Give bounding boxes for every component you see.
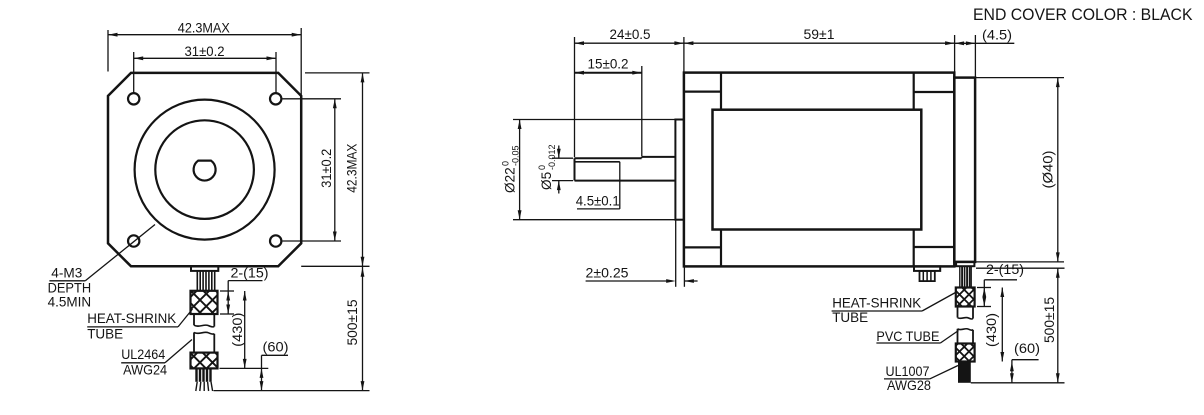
svg-text:AWG28: AWG28: [887, 378, 931, 393]
dimension 500&#177;15 vertical (front view cable): [214, 266, 370, 390]
side cable: pvc tube with break symbol: [958, 307, 974, 344]
svg-text:DEPTH: DEPTH: [48, 281, 92, 296]
side view: shaft with flat: [575, 157, 676, 181]
front cable: lower lead wires: [196, 368, 213, 391]
svg-text:AWG24: AWG24: [123, 362, 167, 377]
svg-text:42.3MAX: 42.3MAX: [178, 21, 230, 36]
svg-text:PVC TUBE: PVC TUBE: [876, 329, 939, 344]
side cable: black lead wire end: [958, 362, 971, 383]
front view: bolt hole top-left: [128, 93, 139, 104]
front cable: pvc tube with break symbol: [194, 314, 214, 353]
svg-text:500±15: 500±15: [1042, 297, 1057, 343]
label UL2464 AWG24 with leader: [121, 340, 192, 378]
label 4-M3 DEPTH 4.5MIN with leader to bolt hole: [48, 225, 155, 310]
side cable: upper wire bundle: [960, 266, 971, 287]
dimension &#216;22 0/-0.05 pilot boss diameter: [501, 120, 676, 220]
side view: front pilot boss: [675, 120, 684, 220]
svg-text:4.5±0.1: 4.5±0.1: [576, 193, 620, 208]
svg-text:42.3MAX: 42.3MAX: [344, 144, 359, 193]
front cable: heat-shrink tube upper (hatched): [191, 291, 218, 314]
svg-text:59±1: 59±1: [804, 27, 835, 42]
svg-text:HEAT-SHRINK: HEAT-SHRINK: [832, 296, 921, 311]
svg-text:UL1007: UL1007: [886, 364, 930, 379]
side view: front end-bell step lines: [684, 73, 721, 267]
dimension 31&#177;0.2 vertical with extension lines: [283, 99, 342, 241]
dimension 2-(15) side cable heat-shrink length: [977, 262, 1024, 307]
side view: rear terminal stub with pins: [914, 266, 940, 281]
svg-text:END COVER COLOR : BLACK: END COVER COLOR : BLACK: [973, 6, 1193, 24]
side view: end cover (black): [954, 78, 975, 262]
svg-text:2±0.25: 2±0.25: [586, 265, 629, 280]
svg-text:HEAT-SHRINK: HEAT-SHRINK: [87, 311, 176, 326]
svg-text:TUBE: TUBE: [87, 326, 123, 341]
side cable: heat-shrink tube upper (hatched): [956, 288, 975, 307]
svg-text:(Ø40): (Ø40): [1040, 151, 1055, 189]
svg-text:(4.5): (4.5): [982, 27, 1012, 42]
front view: inner rotor circle: [155, 120, 254, 219]
svg-text:0: 0: [537, 165, 547, 170]
svg-text:(60): (60): [263, 339, 289, 354]
svg-text:-0.012: -0.012: [547, 144, 557, 170]
front view: bolt hole top-right: [270, 93, 281, 104]
dimension 2-(15) front cable heat-shrink length: [220, 266, 269, 314]
svg-text:24±0.5: 24±0.5: [610, 27, 651, 42]
dimension 42.3MAX horizontal with extension lines: [108, 21, 301, 95]
dimension (60) front cable stripped end: [220, 339, 289, 390]
front view: outer pilot circle: [135, 100, 275, 240]
svg-text:Ø22: Ø22: [503, 167, 518, 193]
label HEAT-SHRINK TUBE (front) with leader: [87, 309, 192, 341]
dimension 24&#177;0.5: [575, 27, 684, 157]
svg-text:31±0.2: 31±0.2: [319, 149, 334, 188]
dimension (430) side cable tube length: [984, 288, 1004, 362]
side cable: heat-shrink tube lower (hatched): [956, 344, 975, 362]
svg-text:UL2464: UL2464: [121, 347, 165, 362]
svg-text:TUBE: TUBE: [832, 310, 868, 325]
dimension 4.5&#177;0.1 shaft flat depth with leader: [576, 162, 620, 209]
front view: motor flange outline with chamfered corners: [108, 73, 301, 266]
svg-text:(430): (430): [984, 313, 999, 347]
front cable: exit boss: [191, 266, 218, 271]
label UL1007 AWG28 with leader: [884, 364, 958, 393]
svg-text:4-M3: 4-M3: [51, 266, 82, 281]
front view: shaft circle with flat: [194, 161, 216, 181]
note END COVER COLOR : BLACK: [973, 6, 1193, 24]
dimension 59&#177;1 body length: [684, 27, 955, 45]
dimension 42.3MAX vertical with extension lines: [301, 73, 369, 266]
dimension 31&#177;0.2 horizontal with extension lines: [134, 44, 276, 93]
svg-text:2-(15): 2-(15): [986, 262, 1024, 277]
svg-text:(60): (60): [1014, 341, 1040, 356]
svg-text:-0.05: -0.05: [511, 145, 521, 166]
front cable: upper wire bundle: [197, 271, 214, 291]
dimension 15&#177;0.2 shaft flat length: [575, 57, 642, 157]
svg-text:15±0.2: 15±0.2: [588, 57, 629, 72]
dimension (4.5) end cover thickness: [955, 27, 1015, 77]
svg-text:500±15: 500±15: [345, 300, 360, 346]
front cable: heat-shrink tube lower (hatched): [191, 353, 218, 369]
dimension (430) front cable tube length: [230, 291, 247, 368]
dimension 500&#177;15 vertical (side view cable): [971, 268, 1065, 383]
label PVC TUBE with leader: [876, 329, 958, 344]
svg-text:(430): (430): [230, 313, 245, 347]
dimension (&#216;40) end cover diameter: [975, 78, 1064, 262]
svg-text:31±0.2: 31±0.2: [185, 44, 225, 59]
side view: motor body outline: [684, 73, 954, 267]
label HEAT-SHRINK TUBE (side) with leader: [832, 293, 956, 325]
dimension &#216;5 0/-0.012 shaft diameter: [537, 144, 573, 193]
side view: rear end-bell step lines: [914, 73, 955, 267]
svg-text:0: 0: [501, 161, 511, 166]
dimension (60) side cable stripped end: [1010, 341, 1040, 383]
side cable: exit neck: [956, 262, 974, 266]
svg-text:Ø5: Ø5: [539, 172, 554, 190]
dimension 2&#177;0.25 boss protrusion: [586, 220, 698, 287]
svg-text:2-(15): 2-(15): [231, 266, 269, 281]
front view: bolt hole bottom-right: [270, 235, 281, 246]
svg-text:4.5MIN: 4.5MIN: [48, 295, 92, 310]
side view: stator lamination rectangle: [713, 110, 922, 230]
front view: bolt hole bottom-left: [128, 235, 139, 246]
